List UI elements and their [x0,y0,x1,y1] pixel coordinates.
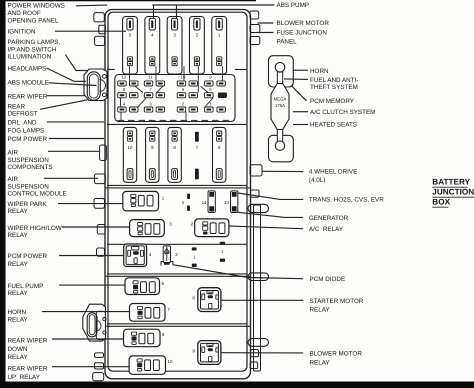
fuse 14 [202,191,216,213]
svg-text:8: 8 [162,332,165,337]
svg-text:HORN: HORN [310,68,329,75]
mini fuse 4 [118,102,138,113]
label BLOWER MOTOR RELAY [310,351,363,367]
label PCM MEMORY [310,98,355,105]
svg-text:MEGA: MEGA [274,97,287,102]
svg-text:FOG LAMPS: FOG LAMPS [8,127,45,134]
label STARTER MOTOR RELAY [310,298,364,314]
label 4 WHEEL DRIVE (4.0L) [309,169,357,184]
black bottom margin bar [0,382,474,388]
wire fuse 13 to GENERATOR label [238,212,303,217]
wire A/C CLUTCH to label [293,111,308,113]
label DRL AND FOG LAMPS [8,120,45,135]
svg-text:14: 14 [202,200,207,205]
svg-text:2: 2 [182,102,185,107]
label ABS MODULE [8,79,49,86]
svg-text:10: 10 [128,145,133,150]
svg-text:I/P AND SWITCH: I/P AND SWITCH [8,46,57,53]
svg-text:STARTER MOTOR: STARTER MOTOR [310,298,364,305]
svg-text:DRL AND: DRL AND [8,120,37,127]
relay 6 fuel pump [125,278,160,295]
label FUEL PUMP RELAY [8,283,44,297]
mini fuse 11 [144,74,164,86]
divider below relay row 1-2 [107,243,247,245]
right edge tab (blower motor) [250,25,260,33]
left edge bottom tab b [95,363,104,369]
label BLOWER MOTOR (fuse) [277,20,330,27]
svg-text:4 WHEEL DRIVE: 4 WHEEL DRIVE [309,169,357,176]
grid wire j1 [135,86,143,92]
battery junction box outer outline [105,10,251,379]
svg-text:A/C RELAY: A/C RELAY [309,226,344,233]
maxi fuse 8 (cartridge row 2) [168,127,181,182]
label HEADLAMPS [8,66,47,73]
svg-text:WIPER HIGH/LOW: WIPER HIGH/LOW [8,225,62,232]
battery stud B+ bottom [248,339,269,347]
label AIR SUSPENSION COMPONENTS [8,149,53,171]
svg-text:6: 6 [162,281,165,286]
label PARKING LAMPS I/P AND SWITCH ILLUMINATION [8,39,61,61]
svg-text:SUSPENSION: SUSPENSION [8,157,50,164]
label WIPER PARK RELAY [8,201,48,215]
maxi fuse 1 (cartridge row 1) [212,17,227,75]
svg-text:RELAY: RELAY [8,232,29,239]
label TRANS. HO2S, CVS, EVR [309,197,384,204]
label A/C CLUTCH SYSTEM [310,109,375,116]
svg-text:6: 6 [182,87,185,92]
fuse 13 [224,191,238,213]
label REAR DEFROST [8,103,38,117]
svg-text:BOX: BOX [432,198,450,207]
wire HORN RELAY label to relay 7 [42,311,130,313]
svg-text:3: 3 [149,102,152,107]
divider above fuel pump relay row line2 [105,275,251,277]
grid wire j4 [138,98,146,107]
relay 8 rear wiper down [124,329,161,347]
wire maxi3 to grid [183,66,185,81]
label AIR SUSPENSION CONTROL MODULE [8,176,67,198]
title BATTERY JUNCTION BOX [432,178,474,208]
maxi fuse position 7 (empty slot) [195,132,199,180]
wire trunk to ABS PUMP label [152,4,274,6]
svg-text:PARKING LAMPS,: PARKING LAMPS, [8,39,61,46]
svg-text:AIR: AIR [8,176,19,183]
wire FUSE JUNCTION tab to label [257,32,273,34]
svg-text:A/C CLUTCH SYSTEM: A/C CLUTCH SYSTEM [310,109,375,116]
svg-text:7: 7 [196,145,199,150]
svg-text:RELAY: RELAY [8,354,29,361]
svg-text:4: 4 [149,252,152,257]
wire REAR WIPER UP label to relay 10 [52,366,129,368]
svg-text:PCM POWER: PCM POWER [8,253,48,260]
svg-text:PANEL: PANEL [277,38,298,45]
mini fuse 1 [205,102,226,113]
maxi fuse 2 (cartridge row 1) [190,17,205,75]
wire PCM POWER label to box [49,138,104,140]
maxi fuse 5 (cartridge row 1) [123,17,138,75]
svg-text:(4.0L): (4.0L) [309,177,325,184]
svg-text:OPENING PANEL: OPENING PANEL [8,17,59,24]
right edge tab upper bus [251,190,260,197]
mini fuse grid box [115,75,235,122]
wire maxi5 to grid [129,66,131,81]
relay 7 horn [130,304,166,322]
wire WIPER HIGH/LOW label to relay 3 [62,226,130,228]
connector C2 on left edge [83,304,106,341]
wire HEADLAMPS label to connector [47,68,87,81]
label REAR WIPER DOWN RELAY [8,337,48,361]
wire HORN fuse to label [293,69,308,71]
maxi fuse 4 (cartridge row 1) [145,17,160,75]
svg-text:AIR: AIR [8,149,19,156]
mini fuse 3 [144,102,164,113]
svg-text:BLOWER MOTOR: BLOWER MOTOR [277,20,330,27]
mega fuse holder lower box [269,135,294,162]
left edge tab (air suspension module) [94,174,105,184]
connector C1 on left edge [84,69,107,101]
black top edge line [0,0,256,1]
label ABS PUMP [277,2,310,9]
wire BLOWER MOTOR tab to label [257,22,273,24]
right edge tab below bottom stud [251,350,259,357]
label FUEL AND ANTI-THEFT SYSTEM [310,77,358,91]
relay 1 wiper park [123,191,159,211]
svg-text:RELAY: RELAY [8,317,29,324]
spare position 1 left [192,247,197,267]
maxi fuse 3 (cartridge row 1) [167,17,182,75]
wire maxi fuse 4 to trunk [153,5,155,19]
left edge tab (pcm power feed) [100,145,107,161]
mini fuse 7 [144,87,164,98]
divider above relay section line1 [107,184,247,186]
wire starter relay to label [221,299,303,301]
grid wire j6 [120,98,122,107]
wire PCM MEMORY to label [291,85,307,101]
left edge tab (pcm power relay) [97,248,105,256]
svg-text:175A: 175A [275,103,285,108]
svg-text:5: 5 [209,87,212,92]
svg-text:DEFROST: DEFROST [8,110,38,117]
right edge tab (4 wheel drive) [250,165,262,176]
svg-text:8: 8 [123,87,126,92]
svg-text:7: 7 [149,87,152,92]
wire PCM POWER RELAY label to relay 4 [59,255,124,257]
svg-text:4: 4 [123,102,126,107]
wire AIR SUSP COMPONENTS label to tab [48,150,99,152]
divider below mini fuse grid [107,123,247,125]
maxi fuse 6 (cartridge row 2) [213,127,226,182]
svg-text:JUNCTION: JUNCTION [432,188,474,197]
label PCM POWER [8,136,48,143]
battery junction box inner outline [108,12,247,371]
relay 10 rear wiper up [129,356,165,374]
right edge tab (fuse junction panel) [250,37,260,45]
label WIPER HIGH/LOW RELAY [8,225,62,239]
battery bus bar strip [254,205,261,371]
relay 4 pcm power (square) [124,244,147,267]
svg-text:11: 11 [148,74,153,79]
wire blower relay to label [221,352,303,354]
svg-text:GENERATOR: GENERATOR [309,215,349,222]
wire 4 WHEEL DRIVE tab to label [263,170,304,172]
wire AIR SUSP CONTROL label to tab [44,177,98,179]
wire FUEL PUMP label to relay 6 [59,284,125,286]
svg-text:FUSE JUNCTION: FUSE JUNCTION [277,30,328,37]
svg-text:1: 1 [221,249,224,254]
svg-text:3: 3 [169,222,172,227]
grid dashed bottom line [118,119,235,121]
mini fuse 12 [118,74,138,86]
relay 9 blower motor (square) [198,341,221,365]
battery stud B+ middle [248,273,269,281]
wire REAR WIPER DOWN label to relay 8 [52,338,124,340]
divider above relay section line2 [105,187,251,189]
svg-text:FUEL AND ANTI-: FUEL AND ANTI- [310,77,358,84]
svg-text:HORN: HORN [8,309,27,316]
left edge bottom tab a [95,353,104,358]
mega fuse holder upper box [269,56,294,87]
svg-text:SUSPENSION: SUSPENSION [8,183,50,190]
svg-text:10: 10 [168,359,173,364]
svg-text:10: 10 [181,74,186,79]
svg-text:HEATED SEATS: HEATED SEATS [310,122,357,129]
svg-text:FUEL PUMP: FUEL PUMP [8,283,44,290]
mini fuse 5 [205,87,227,98]
svg-text:RELAY: RELAY [8,208,29,215]
svg-text:RELAY: RELAY [310,359,331,366]
label A/C RELAY [309,226,344,233]
svg-text:THEFT SYSTEM: THEFT SYSTEM [310,84,358,91]
wire maxi2 to grid [197,66,199,93]
svg-text:13: 13 [224,200,229,205]
right edge tab (abs pump) [250,11,259,19]
wire WIPER PARK label to relay 1 [58,203,123,205]
svg-text:UP RELAY: UP RELAY [8,374,41,381]
label PCM DIODE [310,276,346,283]
maxi fuse 10 (cartridge row 2) [123,127,136,182]
relay 3 wiper high/low [130,220,165,237]
left edge bottom foot [93,373,104,381]
label HEATED SEATS [310,122,357,129]
spare position 1 right [220,242,225,262]
grid wire j3 [157,86,164,92]
divider above rear wiper relay row line2 [105,325,251,327]
label PCM POWER RELAY [8,253,48,268]
svg-text:BLOWER MOTOR: BLOWER MOTOR [310,351,363,358]
right edge bottom small tab [250,362,258,369]
black left margin bar [0,0,6,388]
divider above fuel pump relay row line1 [107,273,247,275]
svg-text:DOWN: DOWN [8,346,28,353]
svg-text:2: 2 [191,222,194,227]
mini fuse 9 [205,74,226,86]
wire maxi1 to grid [221,66,223,81]
divider below cartridge row 1 right segment [235,69,247,71]
svg-text:COMPONENTS: COMPONENTS [8,164,53,171]
diode 2 pcm diode [161,246,173,266]
divider above rear wiper relay row line1 [107,323,247,325]
svg-text:PCM POWER: PCM POWER [8,136,48,143]
svg-text:RELAY: RELAY [8,290,29,297]
left edge small step tab [99,25,106,33]
wire POWER WINDOWS label to box [76,4,107,7]
label GENERATOR [309,215,349,222]
label REAR WIPER UP RELAY [8,366,48,381]
grid wire j8 [185,112,187,120]
relay 2 generator / a-c relay [195,219,229,237]
wire PARKING LAMPS label to connector [65,55,87,71]
label HORN (fuse) [310,68,329,75]
svg-text:7: 7 [168,307,171,312]
spare fuse position 5 [182,194,190,211]
svg-text:TRANS. HO2S, CVS, EVR: TRANS. HO2S, CVS, EVR [309,197,384,204]
svg-text:ABS MODULE: ABS MODULE [8,79,49,86]
divider below cartridge row 1 left segment [107,69,115,71]
label FUSE JUNCTION PANEL [277,30,328,46]
left edge tab (wiper high/low) [97,225,105,235]
svg-text:PCM DIODE: PCM DIODE [310,276,346,283]
wire HEATED SEATS to label [293,124,308,126]
fuse MEGA 175A [271,63,289,151]
left edge tab (power windows feed) [94,13,105,22]
svg-text:REAR WIPER: REAR WIPER [8,366,48,373]
svg-text:CONTROL MODULE: CONTROL MODULE [8,191,67,198]
wire maxi4 to grid [155,66,157,81]
svg-text:1: 1 [162,196,165,201]
grid wire j7 [120,112,122,120]
svg-text:PCM MEMORY: PCM MEMORY [310,98,355,105]
mini fuse 2 [177,102,197,113]
svg-text:1: 1 [209,102,212,107]
label IGNITION [8,29,36,36]
label POWER WINDOWS AND ROOF OPENING PANEL [8,2,65,24]
svg-text:REAR WIPER: REAR WIPER [8,337,48,344]
svg-text:HEADLAMPS: HEADLAMPS [8,66,47,73]
label REAR WIPER [8,93,48,100]
svg-text:RELAY: RELAY [310,307,331,314]
wire DRL FOG label to box [47,121,104,123]
svg-text:REAR WIPER: REAR WIPER [8,93,48,100]
left edge tab (wiper park) [94,199,105,209]
relay 6s starter motor (square) [198,288,221,312]
wire relay 2 to A/C RELAY label [229,226,303,229]
mini fuse 6 [177,87,197,98]
svg-text:6: 6 [192,296,195,301]
mini fuse 8 [118,87,138,98]
wire maxi fuse 3 to trunk [176,5,178,19]
svg-text:1: 1 [193,255,196,260]
wire FUEL ANTI-THEFT to label [284,78,308,81]
left edge tab (parking lamps feed) [95,36,105,45]
grid wire j5 [205,98,213,107]
svg-text:5: 5 [182,200,185,205]
svg-text:ABS PUMP: ABS PUMP [277,2,310,9]
label HORN RELAY [8,309,29,324]
wire REAR DEFROST label to connector [40,100,88,110]
wire fuse 13 to TRANS label [238,193,303,199]
wire diode to PCM DIODE label [174,265,304,279]
svg-text:POWER WINDOWS: POWER WINDOWS [8,2,65,9]
svg-text:RELAY: RELAY [8,261,29,268]
svg-text:2: 2 [175,252,178,257]
battery stud B+ top [248,204,269,212]
svg-text:BATTERY: BATTERY [432,178,470,187]
wire REAR WIPER label to connector [47,95,85,97]
svg-text:AND ROOF: AND ROOF [8,10,41,17]
svg-text:12: 12 [122,74,127,79]
svg-text:9: 9 [192,348,195,353]
svg-text:IGNITION: IGNITION [8,29,36,36]
svg-text:ILLUMINATION: ILLUMINATION [8,54,52,61]
maxi fuse 9 (cartridge row 2) [146,127,159,182]
mini fuse 10 [177,74,197,86]
grid wire j2 [201,86,209,92]
wire IGNITION label to maxi fuse 5 [55,30,126,32]
wire ABS MODULE label to connector [49,83,97,86]
